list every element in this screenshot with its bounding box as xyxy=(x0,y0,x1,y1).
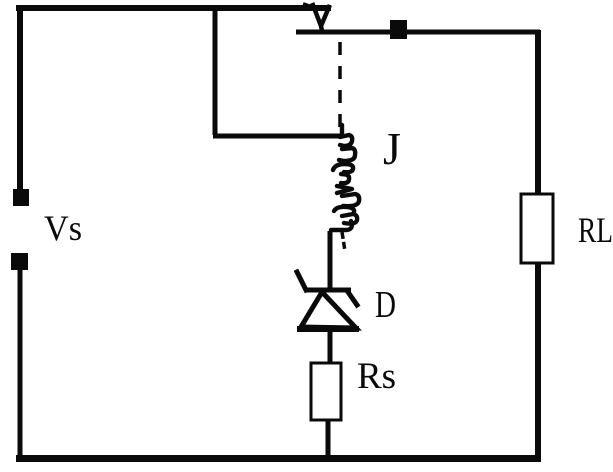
svg-text:RL: RL xyxy=(578,210,613,250)
zener diode D cathode left bend xyxy=(297,272,306,290)
wire branch vertical (top wire down to coil feed) xyxy=(213,6,218,135)
dashed mechanical link lower (below coil) xyxy=(342,232,345,251)
svg-text:Vs: Vs xyxy=(44,208,82,248)
svg-text:J: J xyxy=(383,123,401,174)
switch moving contact arrow xyxy=(305,5,329,31)
svg-text:D: D xyxy=(375,284,396,326)
wire top horizontal from Vs to switch arm xyxy=(16,5,331,11)
resistor RL (box) xyxy=(521,194,553,263)
svg-text:Rs: Rs xyxy=(357,356,396,397)
wire right vertical upper (contact to RL) xyxy=(535,30,541,194)
relay coil J (hand-drawn squiggle) xyxy=(331,125,359,230)
zener diode D cathode bar xyxy=(305,288,351,293)
wire bottom horizontal xyxy=(16,455,541,462)
zener diode D base line xyxy=(297,326,359,332)
wire left vertical upper (to Vs + terminal) xyxy=(17,5,23,191)
source Vs upper terminal plate xyxy=(13,189,29,206)
wire diode to Rs xyxy=(328,331,333,364)
wire coil to diode xyxy=(328,231,333,289)
zener diode D cathode right bend xyxy=(348,292,357,305)
wire left vertical lower (from Vs - terminal) xyxy=(18,270,23,460)
zener diode D anode triangle xyxy=(301,292,356,328)
relay contact point (filled square on bar) xyxy=(390,20,407,39)
resistor Rs (box) xyxy=(311,363,341,420)
wire Rs to bottom xyxy=(326,420,331,460)
wire branch horizontal (to coil J top) xyxy=(213,134,341,139)
source Vs lower terminal plate xyxy=(11,253,28,270)
relay contact bar (fixed contact to RL) xyxy=(296,30,540,35)
dashed mechanical link upper (contact to coil) xyxy=(338,42,342,133)
wire right vertical lower (RL to bottom) xyxy=(535,263,541,460)
